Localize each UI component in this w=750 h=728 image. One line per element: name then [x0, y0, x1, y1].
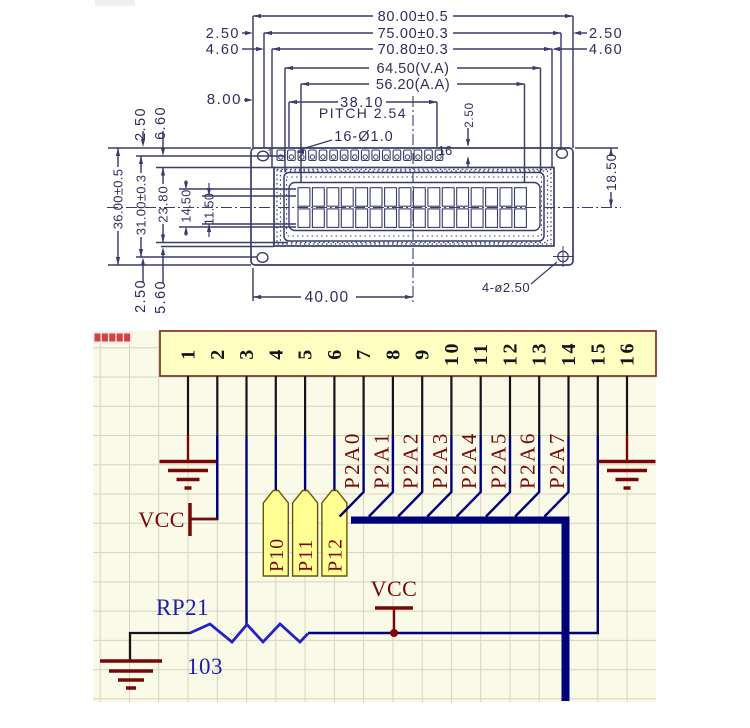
- wire pin13 (P2A6): [515, 436, 539, 517]
- mounting hole top-left: [258, 151, 269, 161]
- pin 15 lead: [597, 376, 599, 436]
- svg-text:64.50(V.A): 64.50(V.A): [377, 61, 450, 77]
- ground stem pin1: [187, 435, 189, 461]
- svg-text:16: 16: [438, 143, 452, 158]
- svg-text:10: 10: [441, 341, 463, 366]
- pin 13 lead: [538, 376, 540, 436]
- ground stem pin16: [626, 435, 628, 461]
- svg-text:RP21: RP21: [156, 595, 209, 620]
- pin 10 lead: [450, 376, 452, 436]
- svg-text:P2A5: P2A5: [487, 431, 511, 489]
- ground GND2 bars: [599, 460, 656, 464]
- wire pin14 (P2A7): [545, 436, 569, 517]
- wire pin7 (P2A0): [340, 436, 364, 517]
- dim 75.00 dimension line: [264, 32, 373, 34]
- mounting hole bottom-right with crosshair: [558, 251, 568, 261]
- schematic sheet background: [93, 331, 656, 702]
- connector J1 body: [160, 331, 656, 376]
- dim 5.60 bottom-left: [162, 252, 164, 283]
- power port VCC1 stem: [190, 518, 217, 520]
- vertical centerline: [412, 96, 414, 302]
- cell area frame: [289, 183, 540, 231]
- label 4.60 top-left leader: [242, 48, 258, 50]
- svg-text:14.50: 14.50: [180, 189, 194, 222]
- svg-text:8: 8: [382, 347, 404, 360]
- wire pin11 (P2A4): [457, 436, 481, 517]
- svg-text:VCC: VCC: [371, 576, 418, 601]
- wire pin9 (P2A2): [398, 436, 422, 517]
- pin 9 lead: [421, 376, 423, 436]
- svg-text:56.20(A.A): 56.20(A.A): [376, 77, 450, 93]
- character cells: [298, 188, 310, 207]
- power port VCC2 bar: [375, 606, 413, 610]
- mounting hole top-right: [557, 149, 568, 159]
- watermark text: [93, 331, 132, 344]
- pin 2 lead: [216, 376, 218, 436]
- LCD bezel frame: [274, 168, 554, 247]
- label 4.60 top-right leader: [559, 48, 587, 50]
- port P10: [263, 491, 288, 577]
- dim 80.00 dimension line: [253, 15, 373, 17]
- svg-text:P11: P11: [295, 539, 317, 572]
- wire pin12 (P2A5): [486, 436, 510, 517]
- label 2.50 top-right leader: [580, 32, 587, 34]
- dim 40.00: [252, 268, 254, 301]
- dim 31.00 line: [140, 156, 142, 173]
- dim 70.80 dimension line: [272, 48, 373, 50]
- svg-text:P10: P10: [266, 538, 288, 572]
- pin 5 lead: [304, 376, 306, 436]
- wire GND3 to RP21 left: [130, 633, 191, 661]
- svg-text:P12: P12: [324, 538, 346, 572]
- pin header 16 pins: [277, 150, 285, 161]
- svg-text:P2A3: P2A3: [428, 431, 452, 489]
- svg-text:PITCH 2.54: PITCH 2.54: [319, 105, 407, 121]
- svg-text:31.00±0.3: 31.00±0.3: [134, 175, 149, 235]
- svg-text:P2A0: P2A0: [340, 431, 364, 489]
- pin 16 lead: [626, 376, 628, 436]
- svg-text:3: 3: [236, 347, 258, 360]
- dim 38.10 dimension line: [289, 101, 338, 103]
- mounting hole bottom-left: [257, 253, 268, 263]
- svg-text:VCC: VCC: [138, 507, 185, 532]
- wire pin6 to port P12: [333, 436, 335, 492]
- junction dot at VCC2 node: [390, 629, 398, 637]
- power port VCC1 bar: [188, 503, 192, 536]
- pin 6 lead: [333, 376, 335, 436]
- dim 18.50: [575, 147, 618, 149]
- svg-text:6: 6: [324, 347, 346, 360]
- svg-text:6.60: 6.60: [153, 106, 169, 140]
- bus horizontal: [351, 517, 569, 524]
- dim 2.50 top-left: [142, 131, 144, 144]
- horizontal centerline: [107, 207, 621, 209]
- svg-text:70.80±0.3: 70.80±0.3: [378, 42, 449, 58]
- dim 23.80 line: [162, 168, 164, 185]
- ground GND3 bars: [100, 659, 162, 663]
- port P11: [293, 491, 318, 577]
- svg-text:8.00: 8.00: [207, 91, 242, 108]
- svg-text:103: 103: [187, 654, 223, 679]
- display window: [284, 173, 544, 242]
- wire pin3 to RP21: [245, 436, 247, 625]
- extension lines for horizontal dims: [252, 16, 254, 148]
- svg-text:P2A1: P2A1: [369, 431, 393, 489]
- pin 3 lead: [245, 376, 247, 436]
- svg-text:5.60: 5.60: [153, 280, 169, 314]
- svg-text:2.50: 2.50: [133, 279, 149, 313]
- pin 4 lead: [275, 376, 277, 436]
- svg-text:11: 11: [470, 342, 492, 366]
- wire pin2 to VCC: [190, 436, 217, 519]
- pin 1 lead: [187, 376, 189, 436]
- wire pin15 down-left: [394, 436, 598, 633]
- dim 36.00 line: [117, 148, 119, 167]
- power port VCC2 stem: [393, 608, 395, 633]
- svg-text:23.80: 23.80: [156, 185, 171, 223]
- dim 14.50 line: [185, 180, 187, 188]
- svg-text:15: 15: [587, 341, 609, 366]
- svg-text:16: 16: [617, 341, 639, 366]
- label 8.00 leader: [244, 99, 249, 101]
- svg-text:12: 12: [500, 341, 522, 366]
- bus vertical: [562, 517, 570, 702]
- svg-text:P2A6: P2A6: [516, 431, 540, 489]
- svg-text:13: 13: [529, 341, 551, 366]
- svg-text:1: 1: [178, 347, 200, 360]
- pin 7 lead: [363, 376, 365, 436]
- pin 14 lead: [567, 376, 569, 436]
- pin 11 lead: [480, 376, 482, 436]
- svg-text:14: 14: [558, 341, 580, 366]
- svg-text:4-ø2.50: 4-ø2.50: [482, 280, 530, 295]
- resistor RP21 zigzag: [190, 624, 308, 642]
- svg-text:2.50: 2.50: [133, 107, 149, 141]
- svg-text:4: 4: [265, 347, 287, 360]
- leader 4-dia2.50: [531, 262, 557, 284]
- label 2.50 top-left leader: [242, 32, 249, 34]
- svg-text:11.50: 11.50: [203, 193, 217, 225]
- svg-text:40.00: 40.00: [305, 289, 350, 306]
- svg-text:75.00±0.3: 75.00±0.3: [378, 26, 449, 42]
- wire pin2 vertical: [216, 436, 218, 519]
- svg-text:4.60: 4.60: [206, 42, 240, 58]
- wire pin5 to port P11: [304, 436, 306, 492]
- leader 16-dia1.0: [302, 140, 332, 149]
- svg-text:2.50: 2.50: [206, 26, 240, 42]
- dim 64.50 dimension line: [285, 67, 369, 69]
- PCB outline: [251, 148, 573, 265]
- dim 56.20 dimension line: [301, 83, 369, 85]
- svg-text:80.00±0.5: 80.00±0.5: [378, 9, 449, 25]
- pin 12 lead: [509, 376, 511, 436]
- dim 6.60 top-left: [162, 131, 164, 153]
- svg-text:16-Ø1.0: 16-Ø1.0: [334, 129, 393, 145]
- dim 2.50 pin row offset: [467, 128, 469, 145]
- svg-text:P2A4: P2A4: [457, 431, 481, 489]
- inner stipple: [287, 177, 542, 236]
- svg-text:18.50: 18.50: [604, 153, 619, 191]
- svg-text:7: 7: [353, 347, 375, 360]
- port P12: [322, 491, 347, 577]
- svg-text:1: 1: [267, 148, 273, 159]
- wire RP21 to VCC2 node: [308, 632, 394, 634]
- dim 11.50 line: [208, 183, 210, 195]
- wire pin4 to port P10: [275, 436, 277, 492]
- svg-text:P2A7: P2A7: [545, 431, 569, 489]
- left extension lines: [108, 147, 251, 149]
- svg-text:P2A2: P2A2: [399, 431, 423, 489]
- svg-text:2.50: 2.50: [589, 26, 623, 42]
- ground GND1 bars: [160, 460, 217, 464]
- stipple dots: [277, 170, 551, 245]
- dim 2.50 bottom-left: [142, 262, 144, 283]
- wire pin10 (P2A3): [427, 436, 451, 517]
- svg-text:36.00±0.5: 36.00±0.5: [111, 169, 126, 229]
- svg-text:5: 5: [295, 347, 317, 360]
- svg-text:2.50: 2.50: [464, 102, 476, 128]
- svg-text:9: 9: [412, 347, 434, 360]
- wire pin8 (P2A1): [369, 436, 393, 517]
- svg-text:4.60: 4.60: [589, 42, 623, 58]
- pin 8 lead: [392, 376, 394, 436]
- svg-text:2: 2: [207, 347, 229, 360]
